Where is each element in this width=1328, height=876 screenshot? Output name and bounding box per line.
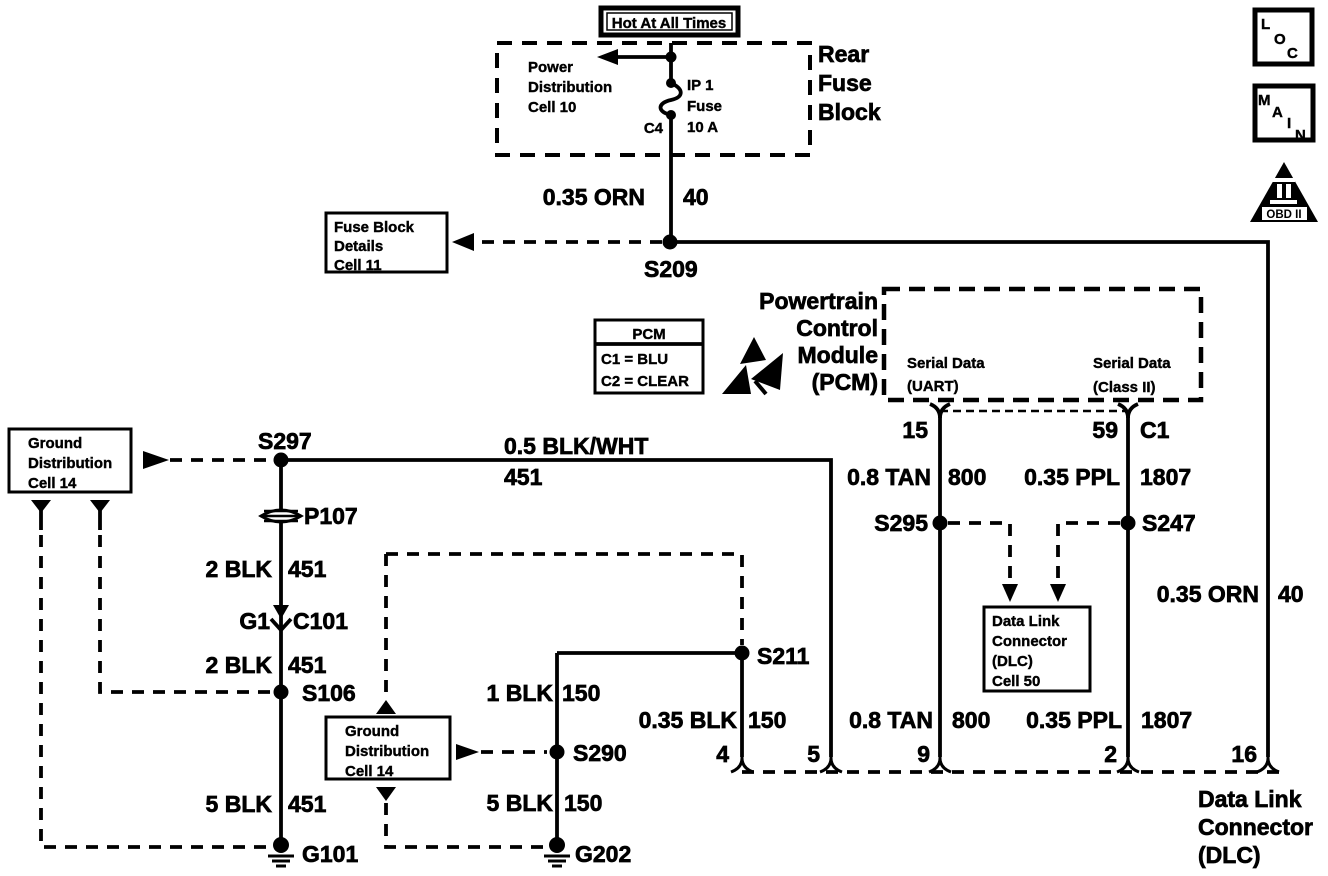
svg-text:O: O — [1274, 31, 1286, 48]
svg-text:Connector: Connector — [992, 633, 1067, 650]
svg-text:0.35 PPL: 0.35 PPL — [1026, 707, 1122, 733]
svg-text:C1 = BLU: C1 = BLU — [601, 351, 668, 368]
svg-text:Data Link: Data Link — [992, 613, 1060, 630]
svg-text:1807: 1807 — [1141, 707, 1192, 733]
svg-text:Serial Data: Serial Data — [1093, 355, 1171, 372]
svg-text:Cell 11: Cell 11 — [334, 257, 382, 274]
svg-text:N: N — [1295, 127, 1306, 144]
svg-text:451: 451 — [288, 652, 327, 678]
svg-text:P107: P107 — [304, 503, 358, 529]
svg-text:Distribution: Distribution — [28, 455, 112, 472]
svg-text:S209: S209 — [644, 256, 698, 282]
svg-text:C101: C101 — [293, 608, 348, 634]
svg-text:Cell 14: Cell 14 — [28, 475, 77, 492]
svg-text:0.8 TAN: 0.8 TAN — [849, 707, 933, 733]
svg-text:C1: C1 — [1140, 417, 1170, 443]
svg-text:A: A — [1272, 104, 1283, 121]
svg-text:451: 451 — [288, 791, 327, 817]
svg-text:16: 16 — [1231, 741, 1257, 767]
svg-text:2 BLK: 2 BLK — [206, 652, 273, 678]
svg-text:Cell 10: Cell 10 — [528, 99, 576, 116]
svg-text:Ground: Ground — [345, 723, 399, 740]
svg-text:Cell 14: Cell 14 — [345, 763, 394, 780]
svg-text:Distribution: Distribution — [528, 79, 612, 96]
svg-text:Fuse Block: Fuse Block — [334, 219, 415, 236]
svg-text:Rear: Rear — [818, 41, 869, 67]
svg-text:150: 150 — [564, 790, 602, 816]
svg-text:0.35 BLK: 0.35 BLK — [639, 707, 738, 733]
svg-text:5: 5 — [807, 741, 820, 767]
svg-text:Fuse: Fuse — [687, 98, 722, 115]
svg-text:S295: S295 — [874, 510, 928, 536]
svg-text:800: 800 — [952, 707, 990, 733]
svg-text:Details: Details — [334, 238, 383, 255]
svg-text:5 BLK: 5 BLK — [206, 791, 273, 817]
svg-text:Powertrain: Powertrain — [759, 288, 878, 314]
svg-text:C: C — [1287, 45, 1298, 62]
svg-text:150: 150 — [748, 707, 786, 733]
svg-text:OBD II: OBD II — [1266, 209, 1301, 221]
svg-text:Ground: Ground — [28, 435, 82, 452]
svg-text:40: 40 — [1278, 581, 1304, 607]
svg-text:59: 59 — [1092, 417, 1118, 443]
svg-text:S297: S297 — [258, 428, 312, 454]
svg-text:C2 = CLEAR: C2 = CLEAR — [601, 373, 689, 390]
svg-text:G202: G202 — [575, 841, 631, 867]
svg-text:Serial Data: Serial Data — [907, 355, 985, 372]
svg-text:0.35 ORN: 0.35 ORN — [543, 184, 645, 210]
svg-text:PCM: PCM — [632, 326, 665, 343]
svg-text:Cell 50: Cell 50 — [992, 673, 1040, 690]
svg-text:L: L — [1261, 16, 1270, 33]
svg-text:800: 800 — [948, 464, 986, 490]
svg-text:Module: Module — [798, 342, 879, 368]
svg-text:S290: S290 — [573, 740, 627, 766]
svg-text:I: I — [1287, 115, 1291, 132]
svg-text:Distribution: Distribution — [345, 743, 429, 760]
svg-text:G1: G1 — [239, 608, 270, 634]
svg-text:Block: Block — [818, 99, 881, 125]
svg-text:Data Link: Data Link — [1198, 786, 1302, 812]
svg-text:4: 4 — [716, 741, 729, 767]
svg-text:5 BLK: 5 BLK — [487, 790, 554, 816]
svg-text:0.35 PPL: 0.35 PPL — [1024, 464, 1120, 490]
svg-text:0.8 TAN: 0.8 TAN — [847, 464, 931, 490]
svg-text:S247: S247 — [1142, 510, 1196, 536]
svg-text:2: 2 — [1104, 741, 1117, 767]
svg-text:Hot At All Times: Hot At All Times — [612, 15, 726, 32]
svg-text:Fuse: Fuse — [818, 70, 872, 96]
svg-text:(DLC): (DLC) — [992, 653, 1033, 670]
svg-text:1807: 1807 — [1140, 464, 1191, 490]
svg-text:451: 451 — [288, 556, 327, 582]
svg-text:10 A: 10 A — [687, 119, 718, 136]
svg-text:G101: G101 — [302, 841, 358, 867]
svg-text:S106: S106 — [302, 680, 356, 706]
svg-text:IP 1: IP 1 — [687, 77, 713, 94]
svg-text:Connector: Connector — [1198, 814, 1313, 840]
svg-text:451: 451 — [504, 464, 543, 490]
svg-text:Control: Control — [796, 315, 878, 341]
svg-text:0.35 ORN: 0.35 ORN — [1157, 581, 1259, 607]
svg-text:S211: S211 — [757, 643, 810, 669]
svg-text:M: M — [1258, 92, 1271, 109]
svg-text:Power: Power — [528, 59, 573, 76]
svg-text:(UART): (UART) — [907, 378, 959, 395]
svg-text:0.5 BLK/WHT: 0.5 BLK/WHT — [504, 433, 648, 459]
svg-text:15: 15 — [902, 417, 928, 443]
svg-text:40: 40 — [683, 184, 709, 210]
svg-text:C4: C4 — [644, 120, 664, 137]
svg-text:(DLC): (DLC) — [1198, 842, 1261, 868]
svg-text:(PCM): (PCM) — [812, 369, 878, 395]
svg-text:2 BLK: 2 BLK — [206, 556, 273, 582]
svg-text:150: 150 — [562, 680, 600, 706]
svg-text:1 BLK: 1 BLK — [487, 680, 554, 706]
svg-text:(Class II): (Class II) — [1093, 379, 1156, 396]
svg-text:9: 9 — [917, 741, 930, 767]
